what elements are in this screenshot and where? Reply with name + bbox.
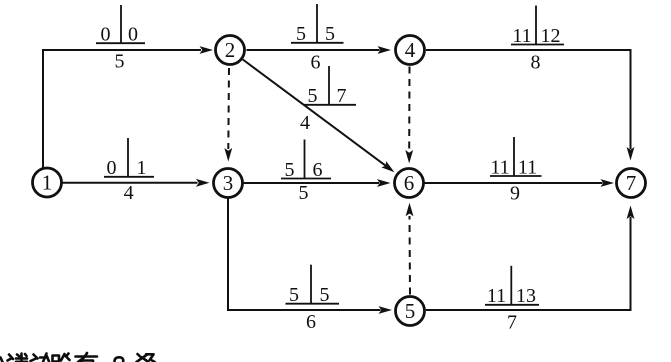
wire 2-4	[247, 49, 380, 51]
svg-text:0: 0	[107, 157, 117, 179]
svg-text:11: 11	[487, 285, 506, 307]
svg-text:5: 5	[405, 299, 416, 323]
glyph jian	[8, 354, 28, 362]
svg-text:3: 3	[223, 171, 234, 195]
arrowhead into node 2	[200, 46, 214, 54]
svg-text:5: 5	[299, 182, 309, 204]
label activity 2-4 : 5|5 / 6	[291, 4, 344, 73]
svg-text:6: 6	[311, 51, 321, 73]
label activity 5-7 : 11|13 / 7	[485, 266, 539, 334]
label activity 4-7 : 11|12 / 8	[511, 6, 564, 74]
svg-text:8: 8	[531, 52, 541, 74]
arrowhead into node 5	[379, 306, 393, 314]
node 1	[33, 168, 62, 197]
wire 1-3	[62, 182, 198, 184]
partial first character	[1, 358, 3, 362]
wire 1-2	[43, 50, 201, 169]
svg-text:12: 12	[541, 25, 561, 47]
svg-text:5: 5	[296, 23, 306, 45]
wire 2-6 diagonal	[243, 60, 386, 166]
svg-text:1: 1	[137, 157, 147, 179]
wire 6-7	[424, 182, 603, 184]
node 7	[617, 169, 646, 198]
glyph you	[76, 353, 98, 362]
dummy 2-3 dashed	[227, 68, 230, 149]
arrowhead into node 6 from node 3	[377, 179, 391, 187]
arrowhead into node 3	[196, 179, 210, 187]
wire 3-6	[243, 182, 380, 184]
node 4	[396, 36, 425, 65]
svg-text:5: 5	[320, 284, 330, 306]
svg-text:5: 5	[289, 284, 299, 306]
svg-text:1: 1	[42, 171, 53, 195]
node 5	[396, 297, 425, 326]
label activity 6-7 : 11|11 / 9	[490, 137, 542, 205]
arrowhead dummy into node 3	[224, 148, 232, 162]
caption: partial Chinese text, tops of glyphs only (cut by image bottom)	[1, 353, 155, 362]
svg-text:7: 7	[626, 171, 637, 195]
label activity 3-5 : 5|5 / 6	[286, 265, 340, 333]
svg-text:0: 0	[128, 24, 138, 46]
wire 3-5	[228, 198, 381, 311]
svg-text:7: 7	[507, 312, 517, 334]
svg-text:4: 4	[124, 182, 134, 204]
svg-text:7: 7	[337, 85, 347, 107]
label activity 2-6 : 5|7 / 4	[300, 66, 356, 134]
wire 5-7	[426, 217, 631, 310]
wire 4-7	[426, 50, 631, 149]
node 6	[395, 169, 424, 198]
glyph xian	[31, 354, 50, 362]
svg-text:13: 13	[516, 285, 536, 307]
svg-text:0: 0	[101, 24, 111, 46]
svg-text:4: 4	[300, 112, 310, 134]
svg-text:9: 9	[510, 183, 520, 205]
svg-text:5: 5	[115, 51, 125, 73]
svg-text:11: 11	[512, 25, 531, 47]
dummy 4-6 dashed	[408, 67, 410, 152]
arrowhead into node 7 bottom	[627, 206, 635, 220]
label activity 3-6 : 5|6 / 5	[281, 140, 331, 205]
dummy 5-6 dashed	[409, 216, 412, 295]
svg-text:5: 5	[308, 85, 318, 107]
label activity 1-3 : 0|1 / 4	[104, 138, 154, 204]
arrowhead into node 7 top	[627, 147, 635, 161]
arrowhead into node 6 from node 2	[381, 161, 394, 172]
svg-text:5: 5	[325, 23, 335, 45]
svg-text:6: 6	[404, 171, 415, 195]
svg-text:11: 11	[490, 156, 509, 178]
glyph lu	[53, 354, 70, 362]
svg-text:6: 6	[313, 159, 323, 181]
node 3	[214, 169, 243, 198]
digit 2	[115, 357, 124, 362]
arrowhead into node 7 from node 6	[601, 179, 615, 187]
svg-text:4: 4	[405, 38, 416, 62]
svg-text:5: 5	[285, 159, 295, 181]
arrowhead dummy into node 6 bottom	[406, 203, 414, 217]
svg-text:11: 11	[518, 156, 537, 178]
svg-text:2: 2	[225, 38, 236, 62]
arrowhead into node 4	[378, 46, 392, 54]
glyph tiao	[137, 354, 155, 362]
label activity 1-2 : 0|0 / 5	[96, 5, 145, 73]
node 2	[216, 36, 245, 65]
arrowhead dummy into node 6 top	[405, 150, 413, 164]
svg-text:6: 6	[306, 311, 316, 333]
